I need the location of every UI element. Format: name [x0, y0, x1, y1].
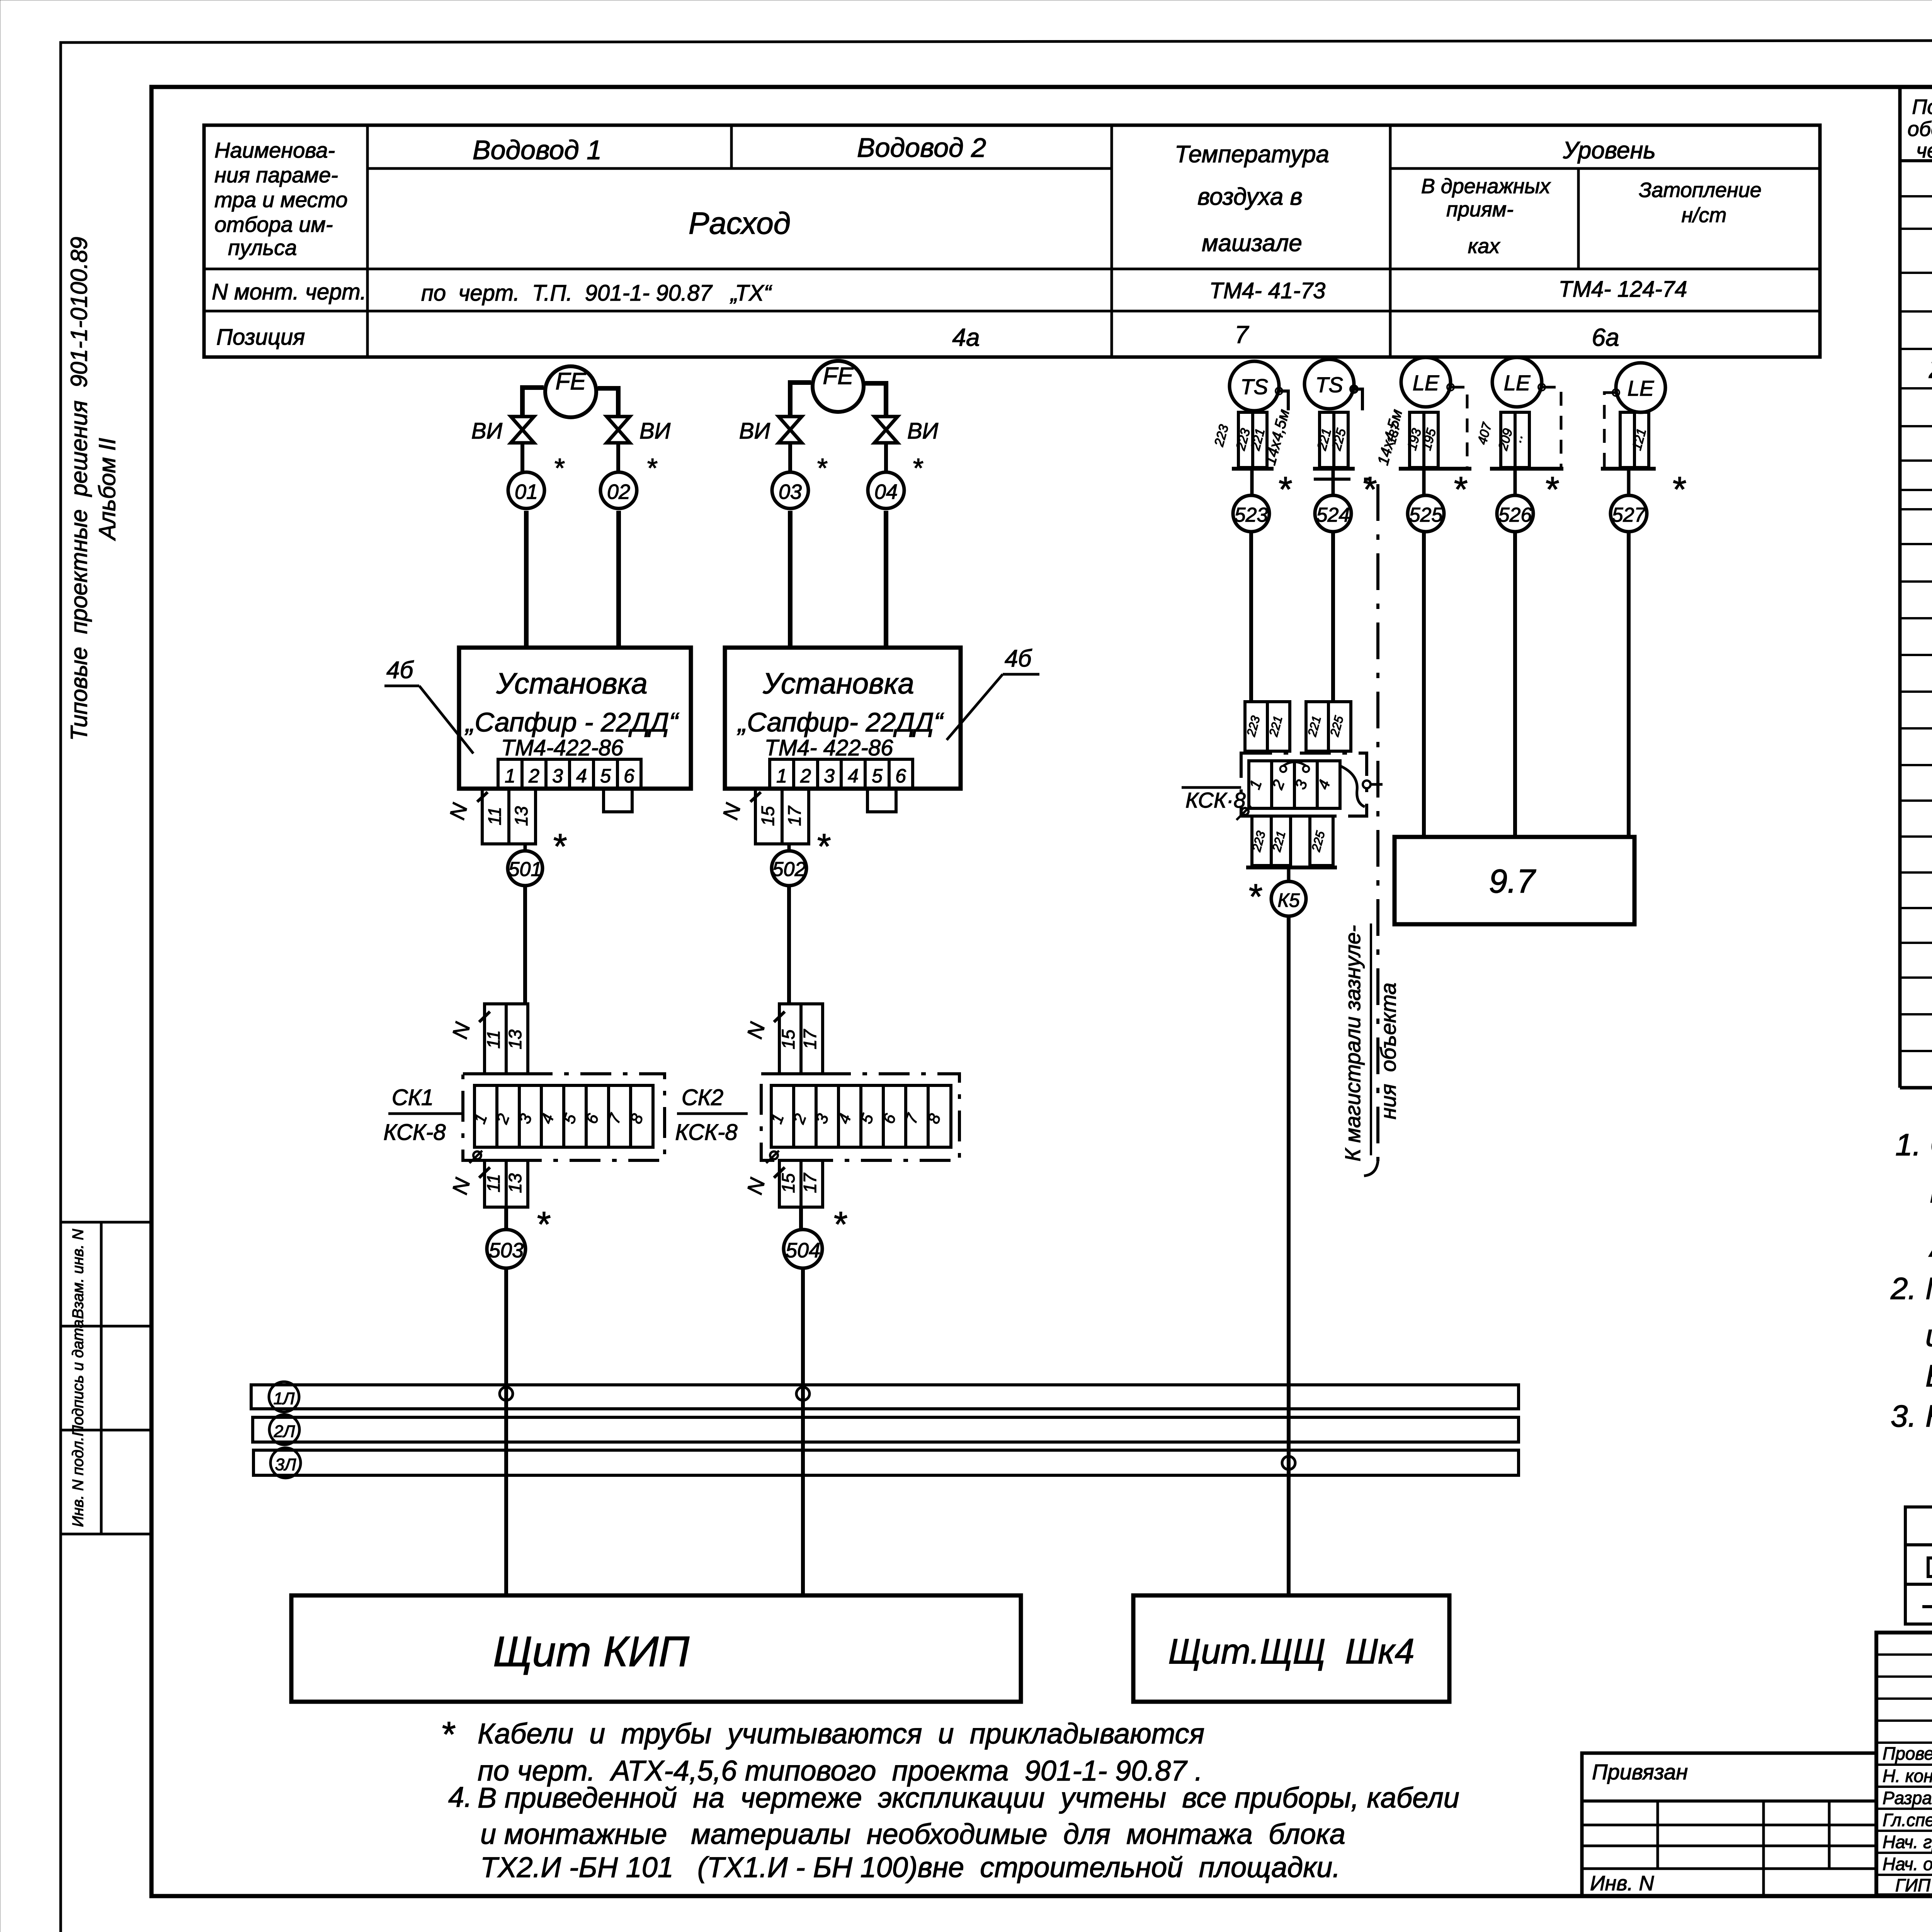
svg-text:Водовод 1: Водовод 1 — [473, 135, 602, 165]
label К магистрали зазнуления объекта (rotated) — [1340, 923, 1400, 1162]
svg-text:*: * — [1452, 470, 1468, 509]
wire bar to К5 — [1287, 867, 1291, 882]
flow element FE (Водовод 2) — [813, 361, 864, 412]
box Привязан — [1582, 1753, 1876, 1895]
svg-text:Схема внешних электрических: Схема внешних электрических и трубных — [1930, 1128, 1932, 1162]
junction box CK2 terminal row 1-8 — [766, 1085, 951, 1163]
instrument circle 501 — [508, 827, 567, 886]
svg-text:воздуха в: воздуха в — [1197, 184, 1303, 210]
instrument circle 525 — [1408, 470, 1468, 532]
svg-text:3: 3 — [552, 765, 563, 787]
svg-text:1Л: 1Л — [274, 1389, 295, 1408]
svg-text:Н. контр.: Н. контр. — [1883, 1766, 1932, 1786]
terminal strip 1-6 of unit 2 — [770, 759, 913, 789]
bar under КСК-8 pins — [1246, 866, 1337, 869]
CK1 bottom pins 11 13 — [447, 1160, 528, 1207]
svg-text:2: 2 — [528, 765, 539, 787]
svg-text:03: 03 — [779, 480, 802, 503]
svg-text:N: N — [445, 801, 472, 822]
svg-text:4б: 4б — [386, 657, 414, 684]
svg-text:221: 221 — [1305, 714, 1324, 738]
svg-text:17: 17 — [784, 806, 804, 826]
panel box Щит КИП — [291, 1595, 1021, 1702]
svg-text:*: * — [912, 453, 923, 483]
junction 504 wire on tray 1Л — [796, 1387, 810, 1400]
terminal stub of unit 2 (cells 5-6) — [867, 789, 896, 812]
svg-text:Нач. отд.: Нач. отд. — [1883, 1854, 1932, 1874]
specification table grid — [1900, 87, 1932, 1088]
svg-text:523: 523 — [1235, 504, 1268, 526]
svg-text:1: 1 — [505, 765, 515, 787]
svg-text:502: 502 — [772, 858, 806, 881]
svg-text:Установка: Установка — [762, 667, 914, 700]
svg-text:223: 223 — [1244, 714, 1263, 738]
cable tray 2Л — [253, 1415, 1519, 1445]
wire LE3 elbow dashed — [1604, 393, 1616, 467]
terminal strip 1-6 of unit 1 — [498, 759, 641, 789]
svg-text:по черт. Т.П. 901-1- 90.87: по черт. Т.П. 901-1- 90.87 „ТХ“ — [421, 281, 772, 306]
svg-text:*: * — [1277, 470, 1292, 509]
unit box Установка Сапфир-22ДД (2) — [725, 648, 961, 789]
bar under LE3 pins — [1601, 467, 1656, 471]
svg-text:TS: TS — [1240, 374, 1268, 399]
legend symbol earthing conductor (dash-dot) — [1922, 1605, 1932, 1608]
wire pins to 501 — [524, 844, 527, 851]
svg-text:04: 04 — [874, 480, 898, 503]
svg-text:АТХ - 4,5 т.п. 901- 90 ·: АТХ - 4,5 т.п. 901- 90 · 87 . — [1929, 1229, 1932, 1263]
svg-text:К5: К5 — [1277, 889, 1299, 911]
svg-text:13: 13 — [505, 1173, 525, 1193]
terminal pins 223 221 under TS1 — [1211, 412, 1268, 468]
row 2д Преобразователь Сапфир-22ДИ — [1929, 351, 1932, 384]
svg-text:Разраб.: Разраб. — [1883, 1788, 1932, 1808]
svg-text:В дренажных: В дренажных — [1421, 175, 1551, 198]
wire FE2 right tap — [865, 383, 886, 417]
svg-text:FE: FE — [555, 368, 586, 395]
svg-text:7: 7 — [1235, 321, 1249, 349]
svg-text:225: 225 — [1327, 714, 1346, 738]
svg-text:Инв. N: Инв. N — [1590, 1872, 1655, 1895]
svg-text:1: 1 — [776, 765, 787, 787]
svg-text:Позиция: Позиция — [216, 325, 305, 350]
svg-text:4: 4 — [576, 765, 587, 787]
junction box КСК-8 terminals 1-4 — [1236, 761, 1383, 820]
svg-text:Кабели и трубы учитываются: Кабели и трубы учитываются и прикладываю… — [478, 1718, 1204, 1750]
svg-text:Взам. инв. N: Взам. инв. N — [70, 1229, 87, 1319]
wire LE2 bar to 526 — [1514, 469, 1517, 495]
svg-text:527: 527 — [1612, 504, 1646, 526]
svg-text:ВСН 296 · 81 ММСС СССР.: ВСН 296 · 81 ММСС СССР. — [1925, 1359, 1932, 1393]
wire 02 to box U1 — [616, 511, 621, 648]
note 1 — [1895, 1128, 1932, 1263]
wire TS1 bar to 523 — [1250, 469, 1254, 495]
svg-text:КСК·8: КСК·8 — [1185, 788, 1246, 812]
cable tray 3Л — [253, 1448, 1519, 1478]
wire 504 to Щит КИП — [801, 1268, 805, 1595]
svg-text:*: * — [440, 1715, 456, 1754]
wire FE1 left tap — [522, 388, 544, 417]
terminal pins 193 195 under LE1 — [1384, 412, 1439, 468]
svg-text:Подпись и дата: Подпись и дата — [70, 1320, 87, 1437]
valve ВИ 2 — [607, 417, 671, 444]
junction 503 wire on tray 1Л — [500, 1387, 513, 1400]
svg-text:02: 02 — [607, 480, 630, 503]
label КСК-8 (mid box) — [1182, 787, 1246, 812]
parameters table (top left) — [204, 125, 1820, 357]
svg-text:13: 13 — [511, 806, 531, 826]
svg-text:3.: 3. — [1891, 1399, 1917, 1433]
svg-text:11: 11 — [485, 807, 505, 825]
svg-text:01: 01 — [515, 480, 538, 503]
callout 4б (right unit) — [947, 645, 1039, 740]
wire 502 to CK2 — [787, 886, 791, 1005]
svg-text:тра и место: тра и место — [214, 187, 348, 212]
svg-text:ВИ: ВИ — [471, 418, 503, 444]
svg-text:*: * — [816, 453, 828, 483]
wire 524 to KCK-8 strip — [1331, 532, 1335, 702]
panel box Щит ЩЩ Шк4 — [1133, 1595, 1449, 1702]
instrument circle TS (524) — [1304, 359, 1357, 409]
svg-text:15: 15 — [778, 1029, 798, 1049]
wire pins to 502 — [787, 844, 791, 851]
wire 525 to box 9.7 — [1422, 532, 1426, 837]
svg-text:2д: 2д — [1929, 352, 1932, 384]
svg-text:Водовод 2: Водовод 2 — [857, 133, 986, 163]
svg-text:4.: 4. — [448, 1781, 472, 1813]
wire FE1 right tap — [598, 388, 618, 417]
svg-text:проводок выполнена на ос: проводок выполнена на основании чертежей — [1930, 1175, 1932, 1209]
svg-text:СК2: СК2 — [682, 1085, 723, 1110]
svg-text:504: 504 — [786, 1239, 820, 1262]
wire 01 to box U1 — [524, 511, 529, 648]
svg-text:N: N — [447, 1175, 475, 1197]
svg-text:и монтажные материалы необх: и монтажные материалы необходимые для мо… — [480, 1818, 1345, 1850]
wire valve4 to 04 — [884, 443, 888, 472]
svg-text:2: 2 — [800, 765, 811, 787]
instrument circle 526 — [1497, 470, 1559, 532]
note 2 — [1890, 1271, 1932, 1393]
instrument circle 03 — [772, 453, 828, 509]
wire 503 to Щит КИП — [504, 1268, 508, 1595]
svg-text:15: 15 — [778, 1173, 798, 1193]
svg-text:СК1: СК1 — [392, 1085, 434, 1110]
junction box CK2 (КСК-8) dashed enclosure — [761, 1074, 959, 1160]
svg-text:приям-: приям- — [1446, 198, 1514, 221]
title block signature labels — [1883, 1743, 1932, 1895]
instrument circle 524 — [1315, 470, 1377, 532]
svg-text:Гл.спец.: Гл.спец. — [1883, 1810, 1932, 1830]
svg-text:н/ст: н/ст — [1682, 204, 1727, 227]
cell Затопление н/ст — [1639, 179, 1762, 227]
wire К5 to Щит ЩЩ — [1287, 916, 1291, 1595]
svg-text:Монтаж защитного зануления в: Монтаж защитного зануления выполнить сог… — [1925, 1271, 1932, 1306]
cable tray 1Л — [251, 1382, 1519, 1412]
svg-text:11: 11 — [483, 1174, 503, 1192]
legend symbol cable tray — [1928, 1558, 1932, 1577]
svg-text:ВИ: ВИ — [639, 418, 671, 444]
svg-text:*: * — [1362, 470, 1377, 509]
svg-text:Типовые проектные решения 9: Типовые проектные решения 901-1-0100.89 — [66, 237, 92, 741]
box 9.7 — [1395, 837, 1634, 924]
svg-text:524: 524 — [1316, 504, 1350, 526]
svg-text:N: N — [742, 1020, 770, 1041]
instrument circle LE (526) — [1492, 357, 1545, 407]
junction К5 wire on tray 3Л — [1282, 1456, 1295, 1469]
svg-text:221: 221 — [1266, 714, 1285, 738]
instrument circle 04 — [868, 453, 923, 509]
svg-text:чение: чение — [1916, 139, 1932, 162]
svg-text:*: * — [816, 827, 831, 866]
svg-text:4: 4 — [848, 765, 859, 787]
svg-text:N: N — [742, 1175, 770, 1197]
row N монт. черт. — [212, 277, 1687, 306]
svg-text:11: 11 — [483, 1030, 503, 1049]
instrument circle 504 — [784, 1205, 847, 1268]
valve ВИ 4 — [874, 417, 939, 444]
wire LE3 bar to 527 — [1627, 469, 1631, 495]
svg-text:5: 5 — [872, 765, 883, 787]
svg-text:13: 13 — [505, 1029, 525, 1049]
svg-text:407: 407 — [1475, 421, 1495, 446]
svg-text:ТХ2.И -БН 101 (ТХ1.И - БН 10: ТХ2.И -БН 101 (ТХ1.И - БН 100)вне строит… — [480, 1851, 1340, 1883]
row Позиция — [216, 321, 1619, 351]
svg-text:6а: 6а — [1592, 323, 1619, 351]
svg-text:ВИ: ВИ — [739, 418, 770, 444]
svg-text:*: * — [1671, 470, 1686, 509]
terminal pins 221 225 under TS2 — [1314, 412, 1349, 468]
CK1 top pins 11 13 — [447, 1004, 528, 1074]
terminal pins 209 under LE2 — [1475, 412, 1529, 468]
terminal pins 15 17 below unit 2 — [718, 789, 809, 844]
instrument circle LE (525) — [1401, 357, 1454, 407]
legend table — [1905, 1507, 1932, 1624]
svg-text:пульса: пульса — [228, 235, 297, 260]
svg-text:15: 15 — [758, 806, 778, 826]
unit box Установка Сапфир-22ДД (1) — [459, 648, 691, 789]
svg-text:501: 501 — [509, 858, 542, 881]
left margin stamp boxes (Взам.инв.N / Подпись и дата / Инв.N подл.) — [61, 1222, 151, 1534]
wire LE1 elbow dashed — [1451, 387, 1467, 467]
svg-text:*: * — [1544, 470, 1559, 509]
svg-text:Установка: Установка — [496, 667, 648, 700]
wire TS1 elbow — [1279, 391, 1288, 410]
KCK-8 upper pins 223 221 221 225 — [1244, 702, 1351, 751]
svg-text:КСК-8: КСК-8 — [383, 1120, 446, 1145]
wire 526 to box 9.7 — [1513, 532, 1517, 837]
wire 527 to box 9.7 — [1627, 532, 1631, 837]
svg-text:LE: LE — [1504, 371, 1531, 395]
junction box CK1 (КСК-8) dashed enclosure — [463, 1074, 665, 1160]
callout 4б (left unit) — [384, 657, 473, 753]
terminal pins 121 under LE3 — [1620, 412, 1649, 468]
svg-text:4б: 4б — [1005, 645, 1032, 672]
svg-text:В приведенной на чертеже эк: В приведенной на чертеже экспликации учт… — [478, 1782, 1459, 1814]
table header texts — [1908, 95, 1932, 162]
svg-text:Щит КИП: Щит КИП — [493, 1628, 689, 1675]
svg-text:ТМ4-422-86: ТМ4-422-86 — [501, 735, 624, 760]
svg-text:N: N — [447, 1020, 475, 1041]
bar under TS2 pins — [1313, 467, 1355, 471]
svg-text:Привязан: Привязан — [1592, 1760, 1688, 1784]
svg-text:6: 6 — [895, 765, 906, 787]
junction box CK1 terminal row 1-8 — [469, 1085, 653, 1163]
wire 03 to box U2 — [788, 511, 793, 648]
svg-text:FE: FE — [823, 363, 854, 389]
bar under TS1 pins — [1232, 467, 1274, 471]
valve ВИ 1 — [471, 417, 534, 444]
terminal stub of unit 1 (cells 5-6) — [604, 789, 632, 812]
svg-text:*: * — [536, 1205, 551, 1244]
svg-text:Уровень: Уровень — [1563, 137, 1656, 164]
svg-text:6: 6 — [624, 765, 634, 787]
instrument circle 01 — [508, 453, 565, 509]
svg-text:*: * — [832, 1205, 847, 1244]
svg-text:2Л: 2Л — [274, 1422, 295, 1441]
svg-text:2.: 2. — [1890, 1271, 1917, 1306]
svg-text:„Сапфир- 22ДД“: „Сапфир- 22ДД“ — [737, 707, 944, 737]
header cell: Наименование параметра и место отбора импульса — [214, 138, 348, 260]
svg-text:Температура: Температура — [1175, 141, 1329, 168]
note with asterisk (bottom left) — [440, 1715, 1459, 1883]
svg-text:ГИП: ГИП — [1895, 1875, 1931, 1895]
svg-text:ТМ4- 41-73: ТМ4- 41-73 — [1209, 278, 1325, 303]
KCK-8 lower pins 223 221 225 — [1249, 816, 1333, 866]
svg-text:отбора им-: отбора им- — [214, 212, 333, 236]
svg-text:17: 17 — [800, 1029, 820, 1049]
CK2 bottom pins 15 17 — [742, 1160, 823, 1207]
svg-text:ВИ: ВИ — [907, 418, 939, 444]
instrument circle 523 — [1233, 470, 1292, 532]
instrument circle 527 — [1611, 470, 1686, 532]
svg-text:3: 3 — [824, 765, 835, 787]
wire FE2 left tap — [790, 383, 811, 417]
svg-text:LE: LE — [1413, 371, 1439, 395]
earth main dash-dot line — [1314, 479, 1378, 1176]
cell Температура воздуха в машзале — [1175, 141, 1329, 257]
svg-text:225: 225 — [1309, 830, 1328, 854]
svg-text:ТМ4- 422-86: ТМ4- 422-86 — [765, 735, 893, 760]
svg-text:N: N — [718, 801, 745, 822]
instrument circle 502 — [772, 827, 831, 886]
instrument circle TS (523) — [1230, 361, 1282, 411]
svg-text:ках: ках — [1468, 235, 1501, 258]
svg-text:121: 121 — [1629, 427, 1649, 452]
wire TS2 bar to 524 — [1332, 469, 1335, 495]
wire valve1 to 01 — [520, 443, 524, 472]
bar under LE2 pins — [1490, 467, 1563, 471]
svg-text:3Л: 3Л — [275, 1455, 296, 1474]
svg-text:Провер.: Провер. — [1883, 1743, 1932, 1764]
wire valve2 to 02 — [616, 443, 620, 472]
svg-text:N монт. черт.: N монт. черт. — [212, 279, 366, 304]
wire valve3 to 03 — [788, 443, 792, 472]
wire 523 to KCK-8 strip — [1249, 532, 1253, 702]
bar under LE1 pins — [1399, 467, 1471, 471]
junction box КСК-8 dashed enclosure (mid) — [1241, 753, 1367, 816]
svg-text:503: 503 — [489, 1239, 524, 1262]
svg-text:525: 525 — [1409, 504, 1443, 526]
svg-text:Наименова-: Наименова- — [214, 138, 335, 162]
svg-text:Щит.ЩЩ Шк4: Щит.ЩЩ Шк4 — [1168, 1632, 1414, 1671]
wire LE1 bar to 525 — [1422, 469, 1426, 495]
svg-text:*: * — [553, 453, 565, 483]
svg-text:инструкции по монтажу: инструкции по монтажу защитного занулени… — [1925, 1318, 1932, 1353]
svg-text:К магистрали зазнуле-: К магистрали зазнуле- — [1340, 925, 1365, 1162]
svg-text:машзале: машзале — [1202, 230, 1302, 257]
instrument circle 02 — [600, 453, 658, 509]
wire LE2 elbow dashed — [1542, 387, 1561, 467]
instrument circle К5 — [1247, 877, 1306, 917]
label СК2 / КСК-8 — [675, 1085, 748, 1145]
wire TS2 elbow — [1354, 389, 1362, 410]
svg-text:Позиц.: Позиц. — [1912, 95, 1932, 119]
svg-text:обозна-: обозна- — [1908, 117, 1932, 141]
svg-text:223: 223 — [1211, 423, 1231, 449]
svg-text:17: 17 — [800, 1173, 820, 1193]
svg-text:Нач. гр.: Нач. гр. — [1883, 1832, 1932, 1852]
svg-text:Альбом II: Альбом II — [94, 438, 120, 541]
svg-text:КСК-8: КСК-8 — [675, 1120, 737, 1145]
svg-text:9.7: 9.7 — [1489, 863, 1536, 900]
svg-text:1.: 1. — [1895, 1128, 1921, 1162]
svg-text:LE: LE — [1628, 376, 1654, 400]
instrument circle LE (527) — [1612, 363, 1665, 412]
flow element FE (Водовод 1) — [545, 366, 596, 417]
wire 04 to box U2 — [884, 511, 888, 648]
svg-text:526: 526 — [1498, 504, 1532, 526]
svg-text:4а: 4а — [952, 323, 980, 351]
svg-text:ТМ4- 124-74: ТМ4- 124-74 — [1559, 277, 1687, 302]
svg-text:*: * — [552, 827, 567, 866]
label СК1 / КСК-8 — [383, 1085, 463, 1145]
svg-text:Настоящий чертеж читать: Настоящий чертеж читать совместно с L 3 … — [1925, 1399, 1932, 1433]
CK2 top pins 15 17 — [742, 1004, 823, 1074]
svg-text:Затопление: Затопление — [1639, 179, 1762, 202]
note 3 — [1891, 1399, 1932, 1433]
svg-text:„Сапфир - 22ДД“: „Сапфир - 22ДД“ — [464, 707, 679, 737]
instrument circle 503 — [487, 1205, 551, 1268]
svg-text:ния параме-: ния параме- — [214, 163, 338, 187]
left margin vertical title: Типовые проектные решения 901-1-0100.89 Альбом II — [66, 237, 120, 741]
svg-text:Расход: Расход — [689, 206, 791, 240]
svg-text:*: * — [646, 453, 658, 483]
svg-text:TS: TS — [1315, 372, 1343, 397]
svg-text:Инв. N подл.: Инв. N подл. — [70, 1437, 87, 1527]
svg-text:5: 5 — [600, 765, 611, 787]
wire 501 to CK1 — [523, 886, 527, 1005]
valve ВИ 3 — [739, 417, 802, 444]
svg-text:ния объекта: ния объекта — [1376, 983, 1400, 1119]
title block frame — [1876, 1633, 1932, 1895]
svg-text:*: * — [1247, 877, 1262, 917]
cell В дренажных приямках — [1421, 175, 1551, 258]
terminal pins 11 13 below unit 1 — [445, 789, 536, 844]
